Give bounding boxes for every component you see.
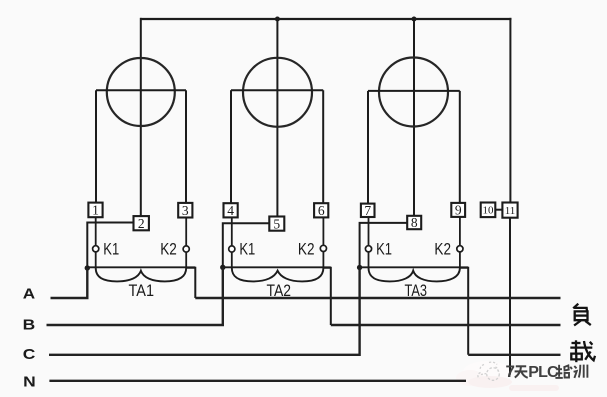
svg-text:K2: K2: [434, 239, 451, 258]
svg-text:K2: K2: [298, 239, 315, 258]
wire terminal 2 bend to phase A junction: [87, 223, 134, 269]
wire phase A load run: [195, 297, 560, 299]
terminal 11: [502, 203, 517, 218]
wire TA1 chord horizontal: [96, 89, 186, 91]
wire TA3 out to phase C run: [460, 268, 468, 355]
svg-text:K2: K2: [160, 239, 177, 258]
svg-text:B: B: [23, 317, 36, 334]
terminal 5: [269, 216, 284, 231]
wire K1 to winding (TA2): [231, 252, 233, 268]
svg-text:10: 10: [483, 205, 495, 217]
wire TA1 left drop (to terminal 1): [95, 90, 97, 204]
wire K2 to winding (TA3): [459, 252, 461, 268]
terminal 2: [134, 216, 149, 231]
terminal 7: [361, 203, 375, 218]
svg-text:TA1: TA1: [129, 281, 155, 300]
watermark speaker icon: [478, 362, 499, 380]
node junction on rail (TA3 drop): [412, 17, 417, 22]
wire terminal 4 to K1 (TA2): [231, 217, 233, 246]
terminal K2 circle TA2: [320, 245, 326, 251]
wire K1 to winding (TA3): [368, 252, 370, 268]
transformer TA3 primary circle: [379, 58, 448, 127]
svg-text:9: 9: [455, 203, 462, 218]
terminal K2 circle TA3: [457, 246, 463, 252]
wire K2 to winding (TA2): [322, 252, 324, 268]
svg-text:7: 7: [506, 362, 515, 381]
wire TA2 right drop (to terminal 6): [322, 90, 324, 203]
wire TA1 center drop (rail to terminal 2): [140, 18, 142, 217]
wire TA2 out to phase B run: [323, 268, 330, 325]
svg-text:K1: K1: [239, 239, 255, 258]
wire K2 to winding (TA1): [185, 252, 187, 268]
wire link terminal 10 to 11: [495, 209, 502, 211]
wire TA3 chord horizontal: [368, 90, 460, 92]
terminal 3: [178, 203, 192, 218]
label load character fu: [573, 304, 591, 326]
svg-text:8: 8: [411, 215, 418, 230]
svg-text:K1: K1: [376, 239, 392, 258]
svg-text:C: C: [23, 346, 36, 363]
wire TA1 right drop (to terminal 3): [185, 90, 187, 204]
wire neutral line: [49, 380, 466, 382]
terminal K2 circle TA1: [183, 246, 189, 252]
terminal 1: [88, 203, 102, 218]
wire junction to winding start (TA1): [87, 266, 195, 268]
wire terminal 1 to K1 (TA1): [95, 217, 97, 246]
wire phase C stub and riser: [49, 268, 360, 355]
svg-text:6: 6: [318, 203, 325, 218]
svg-text:5: 5: [273, 216, 280, 231]
svg-text:N: N: [23, 374, 36, 391]
svg-text:7: 7: [364, 203, 371, 218]
wire phase B load run: [331, 324, 561, 326]
terminal K1 circle TA1: [93, 246, 99, 252]
node junction on rail (TA2 drop): [275, 17, 280, 22]
wire TA3 left drop (to terminal 7): [367, 91, 369, 204]
wire phase B stub and riser: [47, 267, 223, 325]
wire rail right drop (to terminal 11): [509, 18, 511, 203]
terminal 4: [224, 203, 238, 218]
transformer TA1 primary circle: [107, 58, 175, 126]
wire junction to winding start (TA2): [223, 266, 331, 268]
svg-text:4: 4: [227, 203, 234, 218]
wire TA1 out to phase A run: [186, 268, 195, 298]
svg-text:PLC: PLC: [528, 364, 559, 381]
wire TA2 center drop (rail to terminal 5): [276, 18, 278, 217]
wire K1 to winding (TA1): [95, 252, 97, 268]
svg-text:1: 1: [92, 203, 99, 218]
node junction TA2: [220, 265, 225, 270]
terminal 10: [481, 203, 496, 218]
wire terminal 3 to K2 (TA1): [185, 217, 187, 246]
svg-text:2: 2: [138, 216, 145, 231]
node junction TA3: [357, 265, 362, 270]
wire top rail: [140, 18, 512, 20]
wire terminal 9 to K2 (TA3): [459, 217, 461, 246]
terminal 8: [407, 215, 421, 230]
node junction TA1: [85, 265, 90, 270]
svg-text:3: 3: [182, 203, 189, 218]
transformer TA2 secondary winding: [232, 268, 324, 282]
terminal K1 circle TA2: [229, 246, 235, 252]
watermark text 7 tian PLC pei xun: [506, 362, 588, 381]
wire terminal 6 to K2 (TA2): [322, 217, 324, 245]
wire phase A stub and riser: [51, 268, 88, 298]
wire junction to winding start (TA3): [360, 266, 469, 268]
wire terminal 8 bend to phase C junction: [360, 223, 408, 268]
wire TA3 center drop (rail to terminal 8): [413, 18, 415, 216]
transformer TA1 secondary winding: [96, 268, 187, 282]
wire terminal 5 bend to phase B junction: [223, 223, 270, 267]
label load character zai: [570, 340, 595, 362]
svg-text:11: 11: [505, 205, 516, 217]
svg-text:K1: K1: [103, 239, 119, 258]
terminal 9: [451, 203, 465, 218]
wire TA2 left drop (to terminal 4): [230, 90, 232, 203]
transformer TA3 secondary winding: [369, 268, 460, 282]
terminal K1 circle TA3: [365, 246, 371, 252]
svg-text:A: A: [23, 286, 36, 303]
watermark background smudge: [456, 361, 559, 391]
wire TA3 right drop (to terminal 9): [459, 91, 461, 203]
wire phase C load run: [468, 354, 560, 356]
wire terminal 11 to neutral line: [509, 218, 511, 375]
transformer TA2 primary circle: [243, 58, 312, 127]
terminal 6: [314, 203, 328, 218]
wire TA2 chord horizontal: [231, 89, 323, 91]
wire terminal 7 to K1 (TA3): [368, 216, 370, 245]
